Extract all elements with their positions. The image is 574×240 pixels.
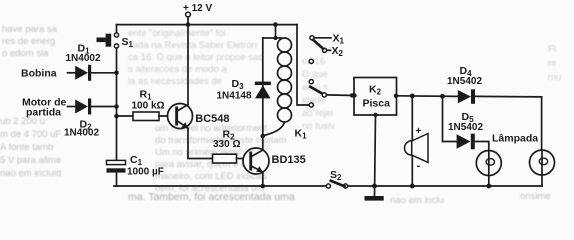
wire: BC548 emitter to R2 — [188, 128, 213, 158]
svg-text:BC548: BC548 — [195, 113, 229, 125]
transistor Q2 BD135 — [243, 148, 306, 174]
svg-text:have para sa: have para sa — [2, 24, 58, 35]
svg-text:mu: mu — [548, 72, 561, 83]
svg-text:1N4002: 1N4002 — [64, 128, 99, 139]
lamp 2 — [492, 133, 555, 187]
svg-text:res de energ: res de energ — [2, 36, 55, 47]
svg-text:1N5402: 1N5402 — [448, 122, 483, 133]
bottom ground rail (right of S2) — [348, 185, 542, 187]
switch S1 (ignition key) — [97, 25, 134, 49]
svg-text:1000 µF: 1000 µF — [127, 167, 164, 178]
node: coil bottom / D3 / collector junction — [261, 134, 266, 139]
wire: D3 top link to coil top — [263, 37, 276, 39]
svg-text:s alteracoes de modo a: s alteracoes de modo a — [128, 64, 227, 75]
svg-text:no fusiv: no fusiv — [302, 121, 335, 132]
background bleed-through text (decorative, not labelled individually) — [0, 24, 561, 206]
lamp 1 — [476, 151, 501, 189]
svg-text:330 Ω: 330 Ω — [213, 139, 240, 150]
transistor Q1 BC548 — [168, 104, 230, 129]
diode D1 1N4002 (Bobina) — [21, 43, 119, 81]
buzzer (speaker) — [405, 126, 428, 172]
svg-text:1N4148: 1N4148 — [217, 91, 252, 102]
svg-text:re: re — [548, 58, 556, 69]
svg-text:nao em inclu: nao em inclu — [390, 195, 444, 206]
svg-text:Pisca: Pisca — [363, 98, 391, 110]
resistor R2 330 ohm — [213, 129, 250, 164]
wire: contact C to K2 — [327, 94, 355, 97]
svg-text:para avisar, quem e outr: para avisar, quem e outr — [155, 159, 257, 170]
svg-text:1N4002: 1N4002 — [66, 53, 101, 64]
diode D5 1N5402 — [448, 111, 489, 151]
svg-text:onsime: onsime — [520, 191, 551, 202]
svg-text:ente "originalmente" foi: ente "originalmente" foi — [128, 28, 226, 39]
svg-text:100 kΩ: 100 kΩ — [132, 100, 165, 111]
svg-text:A fonte tamb: A fonte tamb — [0, 142, 53, 153]
buzzer branch wire — [411, 96, 413, 186]
svg-text:+: + — [416, 126, 422, 137]
relay coil K1 — [264, 22, 308, 140]
capacitor C1 1000uF — [107, 154, 164, 186]
bottom ground rail (left of S2) — [114, 185, 326, 187]
svg-text:Lâmpada: Lâmpada — [492, 133, 538, 145]
wire: +12V top rail — [117, 24, 298, 26]
svg-text:partida: partida — [26, 107, 61, 119]
svg-text:1N5402: 1N5402 — [447, 76, 482, 87]
switch S2 — [326, 169, 347, 188]
svg-text:ca 16. O que o leitor propoe s: ca 16. O que o leitor propoe sao — [128, 52, 264, 63]
svg-text:5 V para alime: 5 V para alime — [0, 155, 61, 166]
diode D4 1N5402 — [447, 65, 482, 104]
relay contacts K1 / X1 X2 terminals — [309, 33, 344, 108]
wire: BD135 emitter to ground rail — [262, 172, 264, 186]
diode D3 1N4148 (flyback) — [217, 38, 271, 136]
wire: K2 output to D4 and lamp 2 — [397, 96, 542, 150]
svg-text:Bobina: Bobina — [21, 68, 57, 80]
svg-text:BD135: BD135 — [272, 154, 306, 166]
flasher module K2 Pisca — [352, 78, 398, 118]
wire: branch down to D5 — [443, 96, 457, 141]
resistor R1 100k — [114, 89, 175, 121]
svg-text:m de 4 700 uF: m de 4 700 uF — [0, 129, 61, 140]
svg-text:Fi: Fi — [548, 44, 556, 55]
diode D2 1N4002 (Motor de partida) — [22, 97, 119, 139]
svg-text:ma. Tambem, foi acrescentada: ma. Tambem, foi acrescentada uma — [128, 191, 295, 203]
svg-text:nao em incluid: nao em incluid — [0, 168, 61, 179]
svg-text:cada na Revista Saber Eletron: cada na Revista Saber Eletron — [128, 40, 257, 51]
wire: BC548 collector to +12V rail — [187, 25, 189, 105]
ground — [365, 184, 384, 201]
wire: K2 bottom to ground — [375, 115, 376, 196]
wire: BD135 collector up to coil/D3 node — [262, 136, 264, 150]
node +12V terminal — [183, 3, 213, 27]
svg-text:la as necessidades de: la as necessidades de — [128, 76, 222, 87]
wire: left bus from S1 down to C1 — [116, 48, 118, 160]
svg-text:ao rejei: ao rejei — [302, 108, 333, 119]
svg-text:-: - — [417, 160, 421, 172]
svg-text:+ 12 V: + 12 V — [183, 3, 213, 14]
svg-text:aum s: aum s — [302, 82, 328, 93]
svg-text:O que: O que — [302, 69, 328, 80]
wire: rail end down to relay contact common — [297, 25, 309, 105]
svg-text:o edom sia: o edom sia — [2, 48, 49, 59]
node: D5 branch — [440, 94, 445, 99]
